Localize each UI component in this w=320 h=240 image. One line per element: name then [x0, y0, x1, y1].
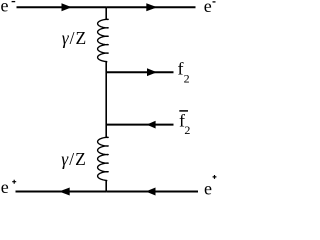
wire vertical upper stub from top vertex — [105, 7, 108, 19]
wire e+ outgoing bottom-right — [106, 191, 198, 193]
arrow on e- incoming line — [62, 3, 72, 11]
wire e- outgoing top-right — [106, 6, 195, 8]
svg-text:e: e — [1, 177, 9, 197]
wire f2 outgoing — [106, 71, 173, 73]
svg-text:2: 2 — [184, 71, 190, 85]
svg-text:e: e — [1, 0, 9, 16]
overbar of f2bar — [179, 110, 188, 112]
arrow on f2bar line — [147, 121, 156, 129]
wire e- incoming top-left — [17, 6, 107, 8]
wire fermion propagator vertical middle — [105, 62, 108, 138]
svg-text:f: f — [178, 59, 184, 79]
svg-text:2: 2 — [184, 123, 190, 137]
arrow on f2 line — [147, 68, 157, 76]
wire f2bar outgoing — [106, 124, 173, 126]
superscript minus of e- top-right — [213, 1, 216, 3]
svg-text:γ/Z: γ/Z — [62, 28, 87, 48]
wire vertical lower stub to bottom vertex — [105, 180, 108, 191]
svg-text:γ/Z: γ/Z — [61, 149, 86, 169]
superscript plus of e+ bottom-right — [213, 175, 217, 179]
svg-text:e: e — [204, 0, 212, 16]
svg-text:e: e — [204, 179, 212, 198]
propagator gamma/Z top coil — [98, 19, 109, 61]
wire e+ incoming bottom-left — [16, 191, 107, 193]
superscript minus of e- top-left — [12, 1, 16, 3]
propagator gamma/Z bottom coil — [98, 137, 109, 180]
arrow on e+ incoming line — [59, 188, 70, 196]
arrow on e- outgoing line — [146, 3, 157, 11]
superscript plus of e+ bottom-left — [12, 180, 16, 184]
arrow on e+ outgoing line — [146, 188, 156, 196]
